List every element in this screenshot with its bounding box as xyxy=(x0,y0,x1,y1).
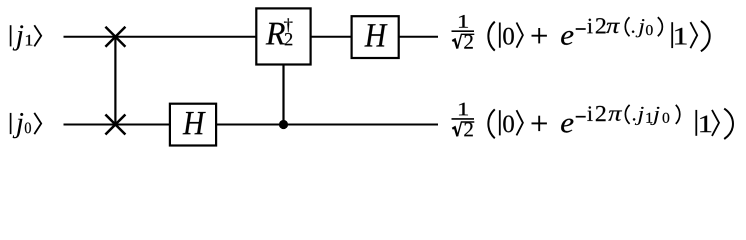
output state formula qubit j1 fraction 1/sqrt2 xyxy=(452,15,475,49)
output state formula qubit j0 exponent -i2pi(.j10) xyxy=(576,105,680,125)
output state formula qubit j1 open paren xyxy=(488,22,494,51)
control vertical link xyxy=(282,64,284,125)
swap gate vertical link xyxy=(114,37,116,125)
wire qubit j1 segment right xyxy=(398,36,438,38)
wire qubit j1 segment middle xyxy=(310,36,352,38)
output state formula qubit j0 plus xyxy=(532,116,547,131)
wire qubit j0 segment right xyxy=(216,124,438,126)
wire qubit j1 segment left xyxy=(64,36,258,38)
output state formula qubit j0 exponential e xyxy=(561,119,573,133)
controlled gate R2-dagger box on j1 xyxy=(256,8,310,64)
output state formula qubit j0 open paren xyxy=(488,109,494,138)
output state formula qubit j0 ket |0> xyxy=(500,110,523,135)
output state formula qubit j0 ket |1> xyxy=(696,110,719,136)
gate H on j1 box xyxy=(352,16,399,58)
output state formula qubit j0 fraction 1/sqrt2 xyxy=(452,103,475,137)
qubit label |j1> xyxy=(11,25,42,50)
output state formula qubit j1 close paren xyxy=(701,21,710,51)
swap gate cross on j1 xyxy=(105,27,125,47)
wire qubit j0 segment left xyxy=(64,124,171,126)
output state formula qubit j1 ket |1> xyxy=(672,22,697,48)
output state formula qubit j1 exponential e xyxy=(561,31,573,45)
qubit label |j0> xyxy=(11,113,42,138)
gate H on j0 box xyxy=(170,104,216,146)
control dot on j0 xyxy=(279,120,288,129)
output state formula qubit j1 plus xyxy=(532,28,547,43)
swap gate cross on j0 xyxy=(105,115,125,135)
output state formula qubit j0 close paren xyxy=(724,109,733,139)
output state formula qubit j1 ket |0> xyxy=(500,23,523,48)
output state formula qubit j1 exponent -i2pi(.j0) xyxy=(576,17,663,37)
